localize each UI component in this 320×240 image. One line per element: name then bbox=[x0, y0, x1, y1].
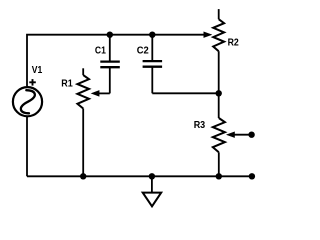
svg-text:C1: C1 bbox=[95, 45, 106, 57]
wire C2 bottom to R2/R3 node bbox=[152, 92, 218, 94]
resistor R2 (potentiometer body) bbox=[213, 9, 224, 93]
junction dot R1 bottom bbox=[80, 173, 86, 179]
wire node to R3 top bbox=[218, 93, 220, 118]
wire R3 wiper arrow from right terminal bbox=[227, 132, 252, 138]
resistor R1 (potentiometer body) bbox=[77, 68, 89, 176]
ground bbox=[143, 176, 162, 206]
svg-text:V1: V1 bbox=[32, 64, 43, 76]
junction dot node below R2 bbox=[216, 90, 222, 96]
wire top from V1 to R2 wiper arrow bbox=[27, 32, 211, 86]
junction dot C1 top bbox=[107, 32, 113, 38]
svg-text:R1: R1 bbox=[61, 77, 73, 89]
capacitor C1 bbox=[100, 35, 120, 94]
svg-text:R2: R2 bbox=[228, 36, 239, 48]
wire V1 bottom lead bbox=[26, 116, 28, 176]
svg-text:C2: C2 bbox=[137, 45, 149, 57]
svg-text:R3: R3 bbox=[194, 119, 206, 131]
plus polarity mark of V1 bbox=[29, 79, 36, 86]
capacitor C2 bbox=[143, 35, 163, 94]
resistor R3 (potentiometer body) bbox=[213, 118, 225, 176]
junction dot C2 top bbox=[149, 32, 155, 38]
voltage source V1 bbox=[13, 87, 42, 116]
terminal dot bottom right bbox=[249, 173, 255, 179]
terminal dot R3 wiper bbox=[248, 132, 254, 138]
wire bottom rail bbox=[27, 175, 252, 177]
junction dot R3 bottom bbox=[216, 173, 222, 179]
wire C1 wiper arrow into R1 bbox=[92, 91, 110, 97]
junction dot ground bbox=[149, 173, 155, 179]
